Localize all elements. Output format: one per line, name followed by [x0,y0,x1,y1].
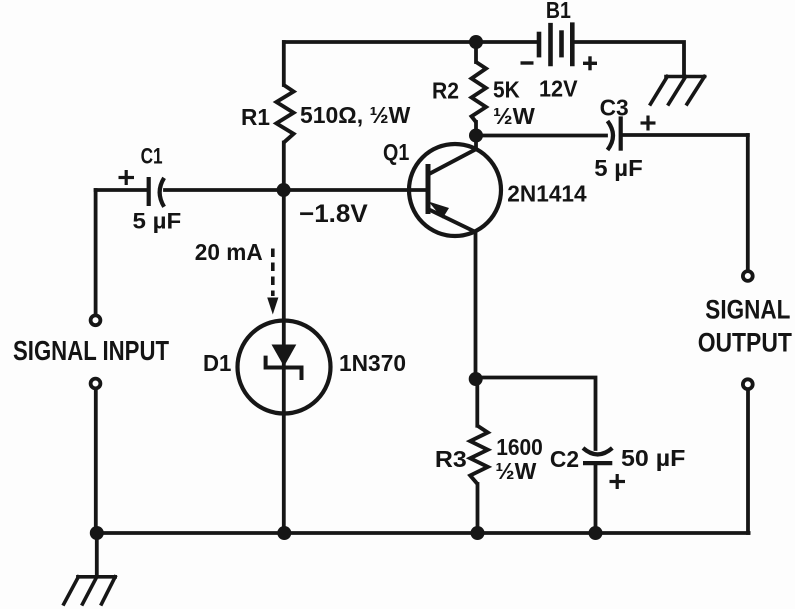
svg-text:−1.8V: −1.8V [299,200,368,228]
svg-text:OUTPUT: OUTPUT [698,328,793,358]
svg-text:2N1414: 2N1414 [507,181,586,207]
svg-text:Q1: Q1 [383,139,409,165]
svg-text:510Ω, ½W: 510Ω, ½W [300,102,411,128]
svg-text:5 µF: 5 µF [594,155,642,181]
svg-text:R2: R2 [432,78,459,104]
svg-text:B1: B1 [546,0,571,23]
svg-text:1N370: 1N370 [339,350,406,376]
svg-text:C2: C2 [550,446,579,472]
svg-text:5K: 5K [493,77,520,103]
svg-text:5 µF: 5 µF [133,209,182,234]
svg-text:C1: C1 [141,144,163,169]
svg-text:12V: 12V [539,75,578,101]
svg-text:½W: ½W [493,103,535,129]
svg-text:SIGNAL: SIGNAL [705,295,790,325]
svg-text:D1: D1 [203,350,232,376]
svg-text:SIGNAL INPUT: SIGNAL INPUT [13,335,169,366]
svg-text:½W: ½W [495,458,536,484]
svg-text:R1: R1 [241,104,270,130]
svg-text:1600: 1600 [496,434,543,460]
svg-text:50 µF: 50 µF [621,445,685,471]
svg-text:20 mA: 20 mA [195,239,263,265]
svg-text:C3: C3 [600,95,629,121]
svg-text:R3: R3 [435,446,467,472]
